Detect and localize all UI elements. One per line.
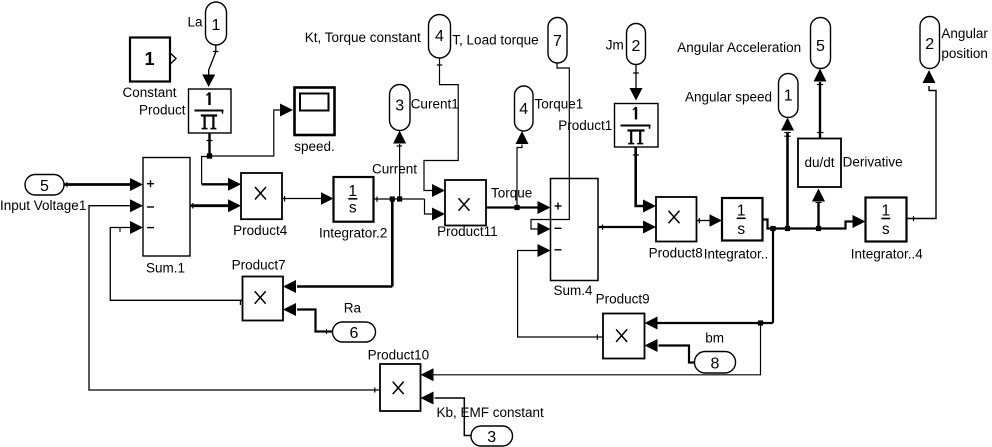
wire Kb to Product10 input2 [421, 392, 472, 436]
node junction bus to Angular speed [785, 226, 790, 231]
port Kt, Torque constant (oval 4) [429, 15, 451, 59]
wire Integrator..4 out up to oval 2 [907, 70, 937, 221]
svg-text:1: 1 [348, 183, 357, 200]
port La (input 1 oval) [206, 2, 227, 45]
svg-text:4: 4 [519, 101, 528, 118]
node junction to Product10 feedback [758, 320, 763, 325]
sum block Sum.4 [551, 179, 599, 281]
svg-text:Derivative: Derivative [843, 155, 903, 170]
port Torque1 (oval 4) [515, 86, 534, 131]
integrator block Integrator.. [722, 198, 763, 241]
svg-text:s: s [737, 221, 745, 238]
svg-text:7: 7 [553, 33, 562, 50]
port Angular position (oval 2) [920, 17, 940, 69]
svg-text:s: s [882, 221, 890, 238]
wire T to Sum.4 input2 [531, 63, 569, 236]
svg-text:Jm: Jm [606, 38, 624, 53]
wire Product7 out to Sum.1 input3 [110, 221, 242, 305]
integrator block Integrator..4 [866, 198, 907, 242]
divide block Product (1/La) [189, 89, 232, 133]
wire junction to scope [210, 104, 294, 157]
wire junction down to Product10 input1 [421, 323, 761, 381]
svg-text:position: position [941, 46, 988, 61]
wire Product10 out to Sum.1 input2 [89, 199, 380, 392]
port Angular speed (oval 1) [779, 74, 799, 118]
product block Product4 [241, 173, 282, 219]
wire junction down to Product4 input1 [202, 157, 241, 191]
wire La to Product [202, 45, 218, 87]
product block Product9 [603, 314, 645, 359]
node junction current feedback [390, 196, 395, 201]
wire Integrator.2 out to Product11 input2 [374, 197, 446, 221]
wire oval5 to Sum.1 [64, 178, 143, 191]
wire Integrator.. out bus to Integrator..4 [763, 215, 866, 229]
svg-text:Integrator..: Integrator.. [704, 247, 769, 262]
port Angular Acceleration (oval 5) [811, 18, 831, 69]
svg-text:Integrator..4: Integrator..4 [851, 247, 924, 262]
svg-text:1: 1 [737, 202, 746, 219]
svg-text:1: 1 [212, 17, 221, 34]
wire up to Curent1 oval [393, 131, 406, 200]
wire Product9 out to Sum.4 input3 [518, 244, 603, 340]
port Input Voltage1 (oval 5) [25, 175, 64, 196]
wire Jm to Product1 [630, 65, 643, 101]
svg-text:Angular speed: Angular speed [685, 90, 772, 105]
svg-text:La: La [188, 15, 204, 30]
svg-text:Product8: Product8 [649, 246, 703, 261]
svg-text:Integrator.2: Integrator.2 [319, 226, 387, 241]
svg-text:1: 1 [784, 88, 793, 105]
port Ra (oval 6) [333, 322, 376, 342]
wire Derivative out up to oval 5 [814, 69, 827, 139]
wire bus up into Derivative [812, 189, 825, 229]
svg-text:du/dt: du/dt [804, 155, 834, 170]
port Kb (oval 3) [471, 426, 513, 446]
svg-text:Product7: Product7 [232, 258, 286, 273]
wire bm to Product9 input2 [645, 339, 695, 363]
integrator block Integrator.2 [334, 177, 374, 222]
wire Kt to Product11 input1 [424, 58, 458, 197]
node junction current to Curent1 [397, 196, 402, 201]
svg-text:Input Voltage1: Input Voltage1 [0, 198, 86, 213]
node junction torque to Torque1 [514, 205, 519, 210]
node junction bus to Derivative [816, 226, 821, 231]
svg-text:1: 1 [881, 203, 890, 220]
svg-text:5: 5 [40, 178, 49, 195]
svg-text:Product: Product [139, 103, 186, 118]
svg-text:Kt, Torque constant: Kt, Torque constant [305, 30, 421, 45]
svg-text:2: 2 [925, 36, 934, 53]
svg-text:1: 1 [144, 49, 154, 69]
svg-text:5: 5 [816, 38, 825, 55]
svg-text:8: 8 [711, 356, 720, 373]
wire Sum.1 out to Product4 [190, 199, 241, 212]
product block Product10 [380, 364, 421, 411]
svg-text:4: 4 [435, 28, 444, 45]
product block Product8 [656, 197, 697, 242]
wire Product1 out to Product8 input1 [633, 147, 656, 213]
wire Product4 to Integrator.2 [282, 192, 334, 205]
wire Product11 out (Torque) to Sum.4 [486, 201, 551, 214]
wire bus up to Angular speed oval [781, 118, 794, 229]
svg-text:Sum.4: Sum.4 [553, 283, 593, 298]
wire Product8 to Integrator.. [697, 214, 723, 227]
svg-text:Ra: Ra [344, 301, 362, 316]
product block Product11 [445, 180, 486, 226]
svg-text:3: 3 [395, 98, 404, 115]
svg-text:Angular: Angular [941, 26, 988, 41]
constant block Constant [130, 38, 176, 82]
svg-text:Product4: Product4 [233, 223, 288, 238]
scope block speed. [295, 88, 335, 136]
product block Product7 [243, 277, 284, 321]
port Curent1 (oval 3) [390, 85, 411, 131]
wire bus down to Product9 input1 [645, 229, 774, 330]
svg-text:bm: bm [705, 331, 724, 346]
svg-text:Product1: Product1 [558, 118, 612, 133]
svg-text:s: s [349, 200, 357, 217]
node junction bus to Product9 [770, 226, 775, 231]
node junction under Product [207, 153, 212, 158]
svg-text:2: 2 [632, 38, 641, 55]
svg-text:3: 3 [487, 429, 496, 446]
wire current feedback down to Product7 [283, 199, 392, 293]
svg-text:6: 6 [350, 325, 359, 342]
wire Sum.4 out to Product8 input2 [598, 221, 656, 234]
svg-text:Kb, EMF constant: Kb, EMF constant [437, 405, 545, 420]
svg-text:Curent1: Curent1 [411, 97, 459, 112]
svg-text:Angular Acceleration: Angular Acceleration [677, 40, 801, 55]
svg-text:Torque: Torque [491, 186, 532, 201]
port Jm (oval 2) [627, 24, 646, 65]
svg-text:speed.: speed. [294, 139, 335, 154]
wire Product out to junction [207, 133, 213, 156]
svg-text:Torque1: Torque1 [535, 97, 584, 112]
svg-text:Sum.1: Sum.1 [146, 261, 185, 276]
divide block Product1 (1/Jm) [615, 104, 659, 148]
wire Ra to Product7 input2 [283, 303, 333, 334]
svg-text:Constant: Constant [122, 85, 176, 100]
svg-text:Product10: Product10 [368, 348, 430, 363]
wire up to Torque1 oval [516, 131, 529, 208]
svg-text:T, Load torque: T, Load torque [452, 33, 538, 48]
port T, Load torque (oval 7) [548, 18, 567, 64]
svg-text:Current: Current [372, 162, 417, 177]
svg-text:Product9: Product9 [596, 292, 650, 307]
svg-text:Product11: Product11 [437, 224, 498, 239]
sum block Sum.1 [143, 158, 190, 257]
port bm (oval 8) [695, 352, 736, 374]
derivative block du/dt [798, 139, 841, 188]
